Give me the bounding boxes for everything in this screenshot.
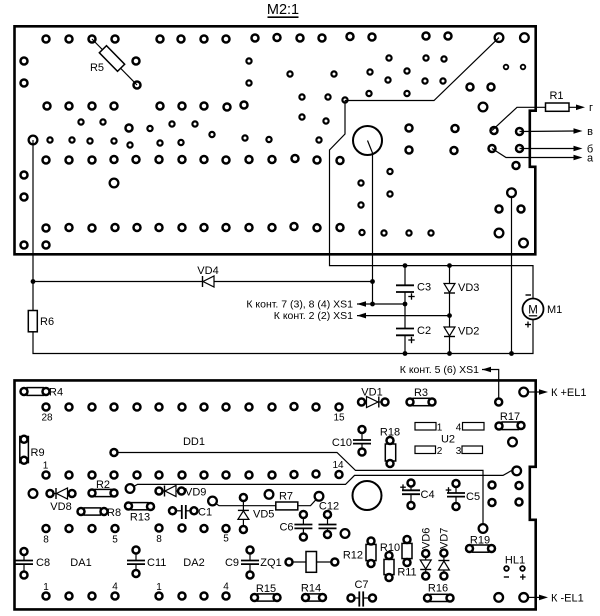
wire via to R7: [216, 503, 276, 506]
svg-text:15: 15: [333, 413, 345, 424]
svg-text:VD5: VD5: [253, 509, 274, 521]
wire from pad down-left and to bridge top line: [330, 101, 534, 299]
board 1 tiny pads: [504, 65, 526, 70]
board 1 pads center low: [358, 169, 392, 208]
svg-text:3: 3: [456, 446, 462, 457]
svg-text:HL1: HL1: [505, 555, 525, 567]
board 1 scattered pads upper: [133, 55, 495, 90]
svg-text:VD1: VD1: [361, 387, 382, 399]
svg-text:C7: C7: [354, 579, 368, 591]
svg-text:C10: C10: [332, 437, 352, 449]
capacitor C5: [446, 480, 480, 510]
wire a from pad: [492, 149, 583, 161]
board 1 big pad with wire down-left: [29, 136, 38, 145]
crystal ZQ1: [260, 552, 338, 573]
wire diagonal top right to pad: [345, 38, 499, 101]
wire v (ve) from pad: [520, 128, 583, 134]
svg-text:4: 4: [456, 423, 462, 434]
LED HL1 pads: [504, 566, 525, 571]
diode VD6: [420, 528, 432, 580]
board 1 big pads top right: [495, 33, 529, 42]
capacitor C6: [279, 511, 312, 541]
capacitor C2: [396, 325, 431, 354]
svg-text:а: а: [587, 153, 594, 165]
big circle hole board 1: [353, 126, 382, 155]
capacitor C7: [348, 579, 377, 607]
svg-text:C4: C4: [421, 489, 435, 501]
svg-text:8: 8: [43, 535, 49, 546]
junction C3 C2 midpoint: [403, 302, 408, 307]
IC DA2 pad row bottom: [156, 593, 230, 600]
optocoupler U2 pin 2 strip: [415, 446, 443, 457]
junction bottom rail right: [509, 351, 514, 356]
capacitor C11: [127, 547, 166, 578]
pad far left bottom row: [29, 489, 38, 498]
svg-text:C12: C12: [319, 501, 339, 513]
svg-text:DA2: DA2: [183, 557, 204, 569]
board 1 pads right low: [495, 206, 525, 238]
junction C2 bottom: [403, 351, 408, 356]
svg-text:14: 14: [332, 460, 344, 471]
resistor R15: [251, 583, 281, 601]
pad wire B end: [512, 467, 521, 476]
svg-text:М1: М1: [547, 304, 562, 316]
svg-text:5: 5: [112, 535, 118, 546]
svg-text:2: 2: [437, 446, 443, 457]
svg-text:R2: R2: [96, 479, 110, 491]
resistor R3: [407, 387, 436, 406]
board 1 pad row bottom: [43, 223, 434, 236]
pad group right of C5: [489, 482, 523, 507]
junction on VD4 line right: [370, 279, 375, 284]
resistor R8: [78, 507, 122, 519]
pad K +EL1 with wire: [519, 388, 548, 397]
junction between VD3 and VD2: [447, 313, 452, 318]
diode VD1: [358, 387, 389, 408]
svg-text:R17: R17: [500, 411, 520, 423]
diode VD5 zener: [238, 494, 275, 533]
board 1 outline (top PCB): [15, 26, 536, 254]
svg-text:1: 1: [43, 582, 49, 593]
board 2 outline (bottom PCB): [15, 380, 536, 609]
svg-text:R8: R8: [107, 507, 121, 519]
svg-text:в: в: [587, 126, 593, 138]
HL1 minus label: [504, 576, 509, 578]
wire B from via to right pad: [134, 471, 517, 487]
svg-text:VD3: VD3: [458, 282, 479, 294]
pad wire A end above R19: [479, 524, 488, 533]
svg-text:R11: R11: [397, 567, 416, 579]
svg-text:М2:1: М2:1: [267, 2, 299, 18]
resistor R6: [28, 282, 533, 354]
svg-text:C1: C1: [198, 507, 212, 519]
svg-text:R19: R19: [470, 535, 490, 547]
svg-text:VD4: VD4: [197, 265, 218, 277]
capacitor C12: [319, 501, 340, 539]
resistor R17: [496, 411, 525, 430]
svg-text:R9: R9: [31, 447, 45, 459]
svg-text:1: 1: [156, 582, 162, 593]
board 1 pad row top: [43, 33, 452, 43]
big pad below R17: [508, 438, 517, 447]
svg-text:R5: R5: [90, 62, 104, 74]
svg-text:R18: R18: [380, 427, 400, 439]
svg-text:ZQ1: ZQ1: [260, 557, 281, 569]
svg-text:4: 4: [112, 582, 118, 593]
svg-text:R4: R4: [49, 387, 63, 399]
resistor R10: [380, 542, 400, 581]
wire from pad to R1 and label g: [492, 105, 585, 131]
IC DD1 pad row bottom pins 1-14: [43, 471, 343, 479]
resistor R14: [301, 583, 326, 602]
capacitor C8: [15, 548, 50, 579]
resistor R13: [125, 503, 154, 524]
svg-text:1: 1: [437, 423, 443, 434]
resistor R12: [343, 538, 376, 568]
wire pad to VD4 line: [33, 140, 373, 282]
board 1 big pad bottom right: [519, 239, 528, 248]
svg-text:R7: R7: [279, 491, 293, 503]
svg-text:VD7: VD7: [439, 528, 451, 549]
pad for K kont 5 6 wire: [495, 399, 502, 406]
svg-text:VD6: VD6: [421, 528, 433, 549]
capacitor C3: [396, 266, 431, 329]
svg-text:К конт. 7 (3), 8 (4) XS1: К конт. 7 (3), 8 (4) XS1: [246, 299, 353, 311]
IC DA2 pad row top: [156, 525, 230, 533]
via pad wire A start: [111, 449, 118, 456]
wire b (be) from pad: [520, 146, 583, 152]
optocoupler U2 pin 3 strip: [456, 446, 483, 457]
capacitor C1: [169, 505, 212, 519]
svg-text:г: г: [589, 102, 593, 114]
junction C3 top: [403, 263, 408, 268]
svg-text:C11: C11: [147, 557, 166, 569]
svg-text:C9: C9: [225, 557, 239, 569]
svg-text:C2: C2: [417, 325, 431, 337]
junction stem line 1: [370, 302, 375, 307]
optocoupler U2 pin 4 strip: [456, 423, 484, 434]
via pad wire B start: [126, 484, 135, 493]
HL1 plus label: [520, 576, 526, 578]
svg-text:C3: C3: [417, 282, 431, 294]
svg-text:28: 28: [41, 413, 53, 424]
resistor R9: [20, 436, 45, 464]
diode VD3: [444, 266, 479, 327]
big circle hole board 2: [353, 481, 382, 510]
svg-text:DD1: DD1: [183, 436, 205, 448]
diode VD2: [444, 326, 479, 354]
svg-text:DA1: DA1: [70, 557, 91, 569]
svg-text:К конт. 5 (6) XS1: К конт. 5 (6) XS1: [400, 364, 479, 376]
junction VD2 bottom: [447, 351, 452, 356]
svg-text:R3: R3: [414, 387, 428, 399]
wire K kont 5 6 XS1 into board 2: [482, 367, 499, 398]
svg-text:4: 4: [223, 582, 229, 593]
resistor R4: [21, 387, 64, 399]
board 1 big pad node wire to M1: [507, 188, 516, 197]
svg-text:8: 8: [156, 534, 162, 545]
big pad below circle: [341, 529, 350, 538]
board 1 pad row 5: [43, 155, 344, 164]
IC DA1 pad row top: [43, 525, 119, 532]
svg-text:R12: R12: [343, 550, 363, 562]
board 1 pads right cluster: [489, 127, 524, 169]
svg-text:R1: R1: [549, 90, 563, 102]
resistor R16: [424, 583, 454, 602]
resistor R7: [265, 490, 324, 510]
svg-text:VD9: VD9: [185, 487, 206, 499]
resistor R19: [466, 535, 495, 553]
pad K -EL1 with wire: [519, 593, 548, 602]
board 1 pad row 2: [44, 91, 410, 111]
board 1 pad cluster mid: [78, 114, 458, 137]
board 1 big pad left: [110, 179, 119, 188]
board 1 left edge pads: [21, 58, 50, 249]
capacitor C9: [225, 547, 259, 579]
resistor R5: [90, 39, 137, 85]
IC DA1 pad row bottom: [43, 593, 119, 600]
capacitor C10: [332, 426, 371, 456]
wire K kont 7 3 8 4 XS1: [357, 301, 405, 307]
svg-text:C6: C6: [279, 522, 293, 534]
via pad R7 wire start: [208, 497, 217, 506]
svg-text:К конт. 2 (2) XS1: К конт. 2 (2) XS1: [274, 310, 353, 322]
diode VD4: [197, 265, 218, 287]
wire A from via to R19 drop: [118, 453, 484, 529]
wire from big pad through to bottom rail: [511, 196, 513, 354]
diode VD7: [438, 528, 450, 580]
svg-text:R6: R6: [40, 316, 54, 328]
title M2:1 scale label: [267, 2, 299, 18]
svg-text:5: 5: [223, 534, 229, 545]
resistor R2: [89, 479, 118, 497]
svg-text:C8: C8: [36, 557, 50, 569]
optocoupler U2 pin 1 strip: [415, 423, 443, 434]
IC DD1 pad row top pins 28-15: [43, 403, 343, 411]
svg-text:К +EL1: К +EL1: [551, 387, 586, 399]
svg-text:U2: U2: [441, 434, 455, 446]
board 1 pad cluster row 4: [47, 135, 457, 154]
wire K kont 2 2 XS1: [357, 313, 450, 319]
diode VD8: [47, 488, 76, 513]
motor M1: [523, 295, 563, 328]
board 1 big pad right: [479, 103, 488, 112]
svg-text:C5: C5: [466, 491, 480, 503]
svg-text:R13: R13: [130, 512, 150, 524]
resistor R18: [380, 427, 400, 468]
capacitor C4: [400, 480, 434, 510]
resistor R11: [397, 536, 416, 579]
diode VD9: [156, 486, 207, 499]
svg-text:VD8: VD8: [50, 501, 71, 513]
junction VD3 top: [447, 263, 452, 268]
junction on VD4 line left: [31, 279, 36, 284]
svg-text:VD2: VD2: [458, 326, 479, 338]
svg-text:R10: R10: [380, 542, 400, 554]
svg-text:R15: R15: [256, 583, 276, 595]
wire stem from big circle down to board 2 area: [368, 141, 373, 305]
svg-text:1: 1: [43, 461, 49, 472]
svg-text:R16: R16: [428, 583, 448, 595]
resistor R1: [546, 90, 570, 111]
svg-text:R14: R14: [301, 583, 321, 595]
svg-text:М: М: [528, 305, 538, 317]
pad K -EL1 left: [494, 593, 503, 602]
svg-text:К -EL1: К -EL1: [551, 593, 584, 605]
